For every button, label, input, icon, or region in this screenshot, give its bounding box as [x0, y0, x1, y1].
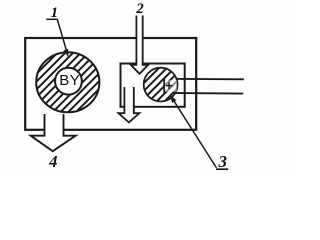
svg-text:1: 1	[51, 5, 59, 21]
inlet arrow 2 (hollow)	[131, 16, 149, 74]
callout 1 arrowhead	[64, 49, 69, 57]
callout 3 arrowhead	[170, 95, 176, 103]
internal flow arrow (hollow)	[118, 87, 139, 122]
sensor square left edge	[163, 78, 165, 94]
inner chamber rectangle	[121, 64, 185, 107]
device circle BY (hatched annulus)	[36, 52, 99, 112]
outer housing rectangle	[25, 38, 196, 130]
svg-text:3: 3	[218, 152, 228, 171]
wire top (upper lead line)	[164, 78, 244, 81]
sensor window light patch	[165, 80, 177, 92]
sensor circle 3 (hatched)	[144, 68, 178, 102]
callout 1 leader shelf	[46, 18, 57, 20]
callout 3 shelf	[216, 168, 228, 170]
callout 1 leader line	[57, 19, 67, 52]
svg-text:ВY: ВY	[59, 72, 80, 89]
svg-text:4: 4	[48, 152, 58, 171]
junction cross mark	[166, 82, 172, 89]
outlet arrow 4 (hollow)	[31, 114, 76, 151]
svg-text:2: 2	[135, 1, 144, 17]
wire bottom (lower lead line)	[164, 92, 243, 95]
callout 3 leader line	[173, 100, 217, 168]
